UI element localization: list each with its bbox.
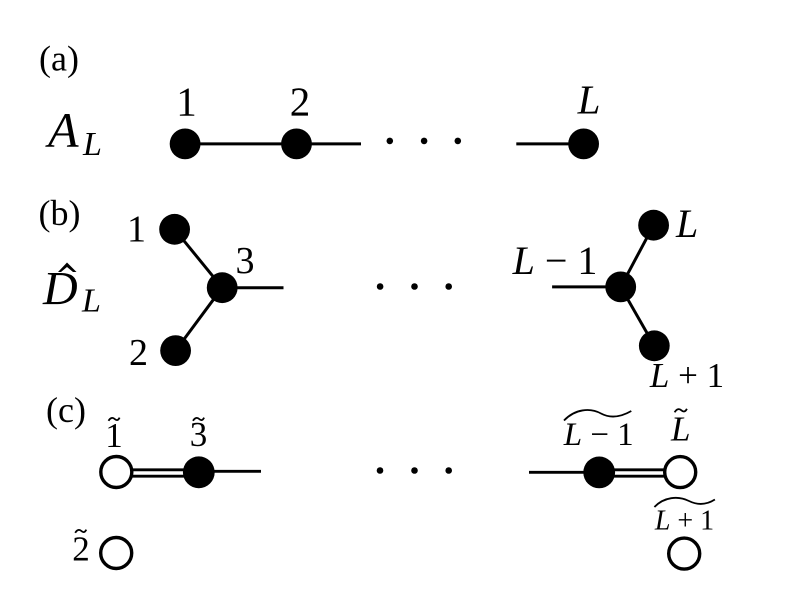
- wire edge 1-3 (b): [175, 229, 223, 287]
- node 1 (b): [159, 214, 190, 245]
- node 2-tilde open (c): [101, 538, 132, 569]
- wire edge dots-(L-1) (b): [552, 285, 621, 288]
- double bond (L-1)~L (c): [599, 470, 680, 476]
- svg-text:2: 2: [129, 332, 148, 374]
- svg-text:L: L: [670, 410, 690, 449]
- svg-text:1: 1: [176, 79, 197, 125]
- node 2 (a): [281, 129, 312, 160]
- svg-text:1: 1: [105, 416, 123, 455]
- ellipsis dots (a): [387, 138, 462, 145]
- double bond 1~3 (c): [116, 470, 199, 476]
- wire edge 2-dots (a): [297, 142, 362, 145]
- wire edge dots-L (a): [516, 142, 583, 145]
- svg-text:1: 1: [127, 208, 146, 250]
- svg-text:L − 1: L − 1: [563, 417, 634, 453]
- svg-text:2: 2: [290, 79, 311, 125]
- svg-text:L − 1: L − 1: [512, 238, 598, 283]
- node 1-tilde open (c): [101, 457, 132, 488]
- label 3-tilde (c): [190, 415, 208, 454]
- node L (a): [568, 129, 599, 160]
- svg-text:(c): (c): [46, 390, 86, 430]
- node 2 (b): [160, 335, 191, 366]
- label D-hat_L: [42, 263, 101, 320]
- label 2-tilde (c): [72, 530, 90, 569]
- svg-text:3: 3: [236, 240, 255, 282]
- label L-1 widetilde (c): [563, 410, 634, 453]
- svg-text:(b): (b): [39, 193, 81, 233]
- svg-text:(a): (a): [39, 39, 79, 79]
- ellipsis dots (b): [377, 283, 452, 290]
- svg-text:L + 1: L + 1: [649, 356, 724, 395]
- node L (b): [638, 210, 669, 241]
- label 1-tilde (c): [105, 416, 123, 455]
- svg-text:L: L: [577, 77, 601, 123]
- svg-text:L: L: [675, 201, 698, 246]
- svg-text:L + 1: L + 1: [654, 506, 714, 537]
- node L-1 (b): [605, 272, 636, 303]
- label L+1 widetilde (c): [654, 498, 715, 537]
- node L-1 tilde filled (c): [583, 457, 615, 489]
- node 3 (b): [207, 272, 238, 303]
- node L-tilde open (c): [665, 457, 696, 488]
- svg-text:3: 3: [190, 415, 208, 454]
- svg-text:L: L: [82, 126, 102, 163]
- svg-text:2: 2: [72, 530, 90, 569]
- wire edge (L-1)-L (b): [621, 225, 654, 287]
- ellipsis dots (c): [377, 467, 452, 474]
- label A_L: [45, 102, 102, 163]
- node 1 (a): [170, 129, 201, 160]
- label L-tilde (c): [670, 409, 690, 449]
- wire edge 3-dots (c): [199, 470, 261, 473]
- node L+1 (b): [639, 330, 670, 361]
- wire edge 3-dots (b): [222, 286, 283, 289]
- svg-text:A: A: [45, 102, 79, 158]
- wire edge (L-1)-(L+1) (b): [621, 287, 655, 346]
- node 3-tilde filled (c): [183, 456, 215, 488]
- svg-text:L: L: [81, 282, 101, 319]
- wire edge dots-(L-1) (c): [529, 471, 599, 474]
- wire edge 2-3 (b): [176, 288, 223, 351]
- wire edge 1-2 (a): [185, 142, 297, 145]
- node L+1 tilde open (c): [669, 538, 700, 569]
